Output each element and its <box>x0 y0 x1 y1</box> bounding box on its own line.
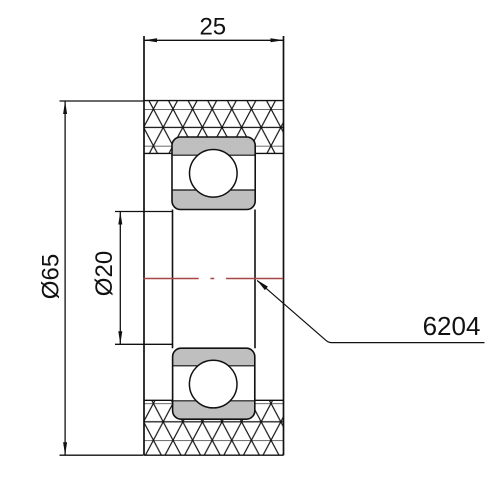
wheel outline left edge + extension <box>143 36 145 455</box>
hub bore wall left <box>172 210 174 349</box>
dimension D20: bottom arrow <box>118 331 122 344</box>
dimension D65: extension line bottom <box>60 454 144 456</box>
bearing U-top outer ring (rounded rect, grey) <box>172 137 255 210</box>
dimension 25: line <box>144 39 284 41</box>
top bearing ball <box>190 150 238 198</box>
leader line to bearing <box>257 281 484 343</box>
tyre hatch bottom band <box>144 400 284 455</box>
dimension D20: top arrow <box>118 212 122 225</box>
dimension D20: line <box>119 212 121 345</box>
wheel outline right edge + extension <box>283 36 285 455</box>
dimension 25: right arrow <box>271 38 284 42</box>
dimension 25: left arrow <box>144 38 157 42</box>
dimension D65: extension line top <box>60 100 144 102</box>
tyre hatch top band <box>144 101 284 154</box>
dimension D65: bottom arrow <box>63 442 67 455</box>
bottom bearing raceway gap (white band) <box>174 366 254 401</box>
bottom bearing ball <box>189 360 237 408</box>
dimension D20: extension line bottom <box>115 343 173 345</box>
hub bore wall right <box>254 210 256 349</box>
svg-text:6204: 6204 <box>423 311 481 341</box>
dimension D65: top arrow <box>63 101 67 114</box>
bearing bottom outer ring (rounded rect, grey) <box>173 348 255 419</box>
top bearing raceway gap (white band) <box>173 155 254 190</box>
svg-text:25: 25 <box>199 14 226 41</box>
centerline (red dash-dot) <box>144 278 284 280</box>
dimension D20: extension line top <box>115 211 172 213</box>
svg-text:Ø20: Ø20 <box>91 251 118 296</box>
dimension D65: line <box>64 101 66 455</box>
svg-text:Ø65: Ø65 <box>38 254 65 299</box>
leader arrow <box>257 280 268 290</box>
